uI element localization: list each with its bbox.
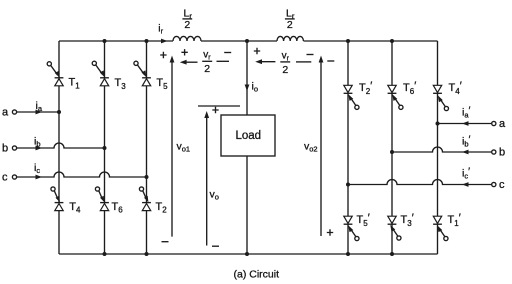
svg-text:2: 2 [184, 19, 190, 31]
svg-text:b: b [2, 143, 8, 155]
svg-text:2: 2 [287, 19, 293, 31]
svg-text:c: c [2, 172, 8, 184]
svg-text:Load: Load [236, 130, 262, 142]
svg-text:a: a [499, 118, 506, 130]
svg-text:c: c [499, 179, 505, 191]
svg-text:b: b [499, 147, 505, 159]
svg-text:2: 2 [282, 64, 288, 76]
svg-text:(a) Circuit: (a) Circuit [234, 269, 280, 281]
svg-text:2: 2 [204, 63, 210, 75]
svg-text:a: a [2, 107, 9, 119]
